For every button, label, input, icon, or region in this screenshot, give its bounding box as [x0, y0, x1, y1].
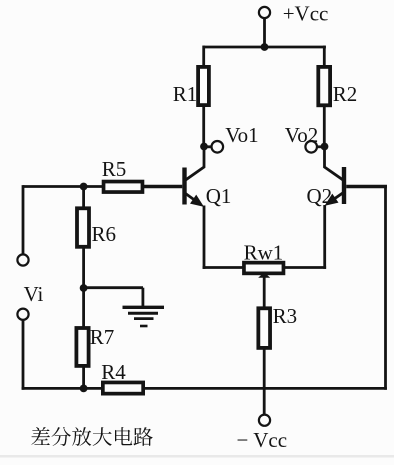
node top junction: [261, 43, 269, 51]
svg-text:Q1: Q1: [206, 184, 232, 208]
node Vo1 junction: [200, 143, 208, 151]
node B junction: [80, 284, 88, 292]
terminal -Vcc: [259, 415, 270, 426]
wire bottom rail left: [22, 387, 104, 390]
node C junction: [80, 385, 88, 393]
wire Q1 emitter down: [203, 206, 206, 269]
wire Vo1 stub: [204, 145, 212, 148]
transistor Q1 base lead: [144, 185, 182, 188]
wire Vi plus vertical: [22, 185, 25, 254]
svg-text:+Vcc: +Vcc: [283, 2, 329, 26]
wire top rail: [203, 46, 326, 49]
svg-text:R4: R4: [101, 360, 126, 384]
wire R1 to node Vo1: [202, 106, 205, 147]
wire R7 to node C: [82, 366, 85, 390]
wire +Vcc stub: [263, 18, 266, 47]
wire R2 to node Vo2: [323, 106, 326, 147]
resistor R4: [103, 382, 143, 393]
svg-text:Vo1: Vo1: [225, 123, 258, 147]
resistor R2: [318, 67, 330, 105]
svg-text:− Vcc: − Vcc: [237, 428, 288, 452]
bottom faint band: [0, 455, 394, 458]
svg-text:Q2: Q2: [307, 184, 333, 208]
terminal Vo2: [305, 141, 317, 153]
svg-text:R7: R7: [90, 325, 115, 349]
wire rail to R2: [323, 46, 326, 68]
svg-text:Rw1: Rw1: [244, 241, 284, 265]
wire node B to R7: [82, 288, 85, 328]
node A junction: [80, 183, 88, 191]
potentiometer Rw1: [244, 263, 284, 274]
terminal Vo1: [212, 141, 224, 153]
wire Vi minus vertical: [22, 320, 25, 390]
wire rail to R1: [202, 46, 205, 68]
svg-text:R6: R6: [92, 222, 117, 246]
resistor R7: [76, 328, 88, 366]
wire emitter to Rw1 right: [285, 266, 327, 269]
svg-text:R2: R2: [333, 82, 358, 106]
caption 差分放大电路: [31, 427, 152, 446]
svg-text:R5: R5: [102, 157, 127, 181]
resistor R1: [198, 67, 209, 105]
terminal Vi top: [17, 254, 28, 265]
resistor R5: [104, 182, 143, 193]
terminal Vi bottom: [17, 309, 28, 320]
transistor Q1 emitter lead with arrow: [186, 194, 203, 206]
wire emitter to Rw1 left: [203, 266, 244, 269]
resistor R3: [258, 308, 270, 348]
transistor Q2 base lead: [346, 185, 387, 188]
transistor Q2 base bar: [342, 167, 346, 204]
svg-text:R1: R1: [173, 82, 198, 106]
svg-text:R3: R3: [273, 304, 298, 328]
transistor Q1 collector lead: [186, 147, 204, 180]
svg-text:Vi: Vi: [24, 282, 44, 306]
wire right side vertical: [384, 185, 387, 390]
wire R6 to node B: [82, 247, 85, 289]
wire Vo2 stub: [317, 145, 325, 148]
terminal +Vcc: [259, 7, 270, 18]
ground: [123, 288, 165, 326]
wire node A to R6: [82, 187, 85, 211]
transistor Q2 collector lead: [325, 147, 343, 180]
potentiometer Rw1 wiper arrow: [259, 273, 269, 309]
transistor Q2 emitter lead with arrow: [326, 193, 343, 205]
wire bottom rail right: [145, 387, 387, 390]
resistor R6: [77, 208, 89, 247]
transistor Q1 base bar: [182, 168, 186, 205]
node Vo2 junction: [321, 143, 329, 151]
wire left rail horizontal: [23, 185, 103, 188]
wire Q2 emitter down: [323, 205, 326, 269]
wire R3 to -Vcc: [263, 348, 266, 415]
wire node B to ground: [84, 286, 143, 289]
svg-text:Vo2: Vo2: [285, 123, 318, 147]
